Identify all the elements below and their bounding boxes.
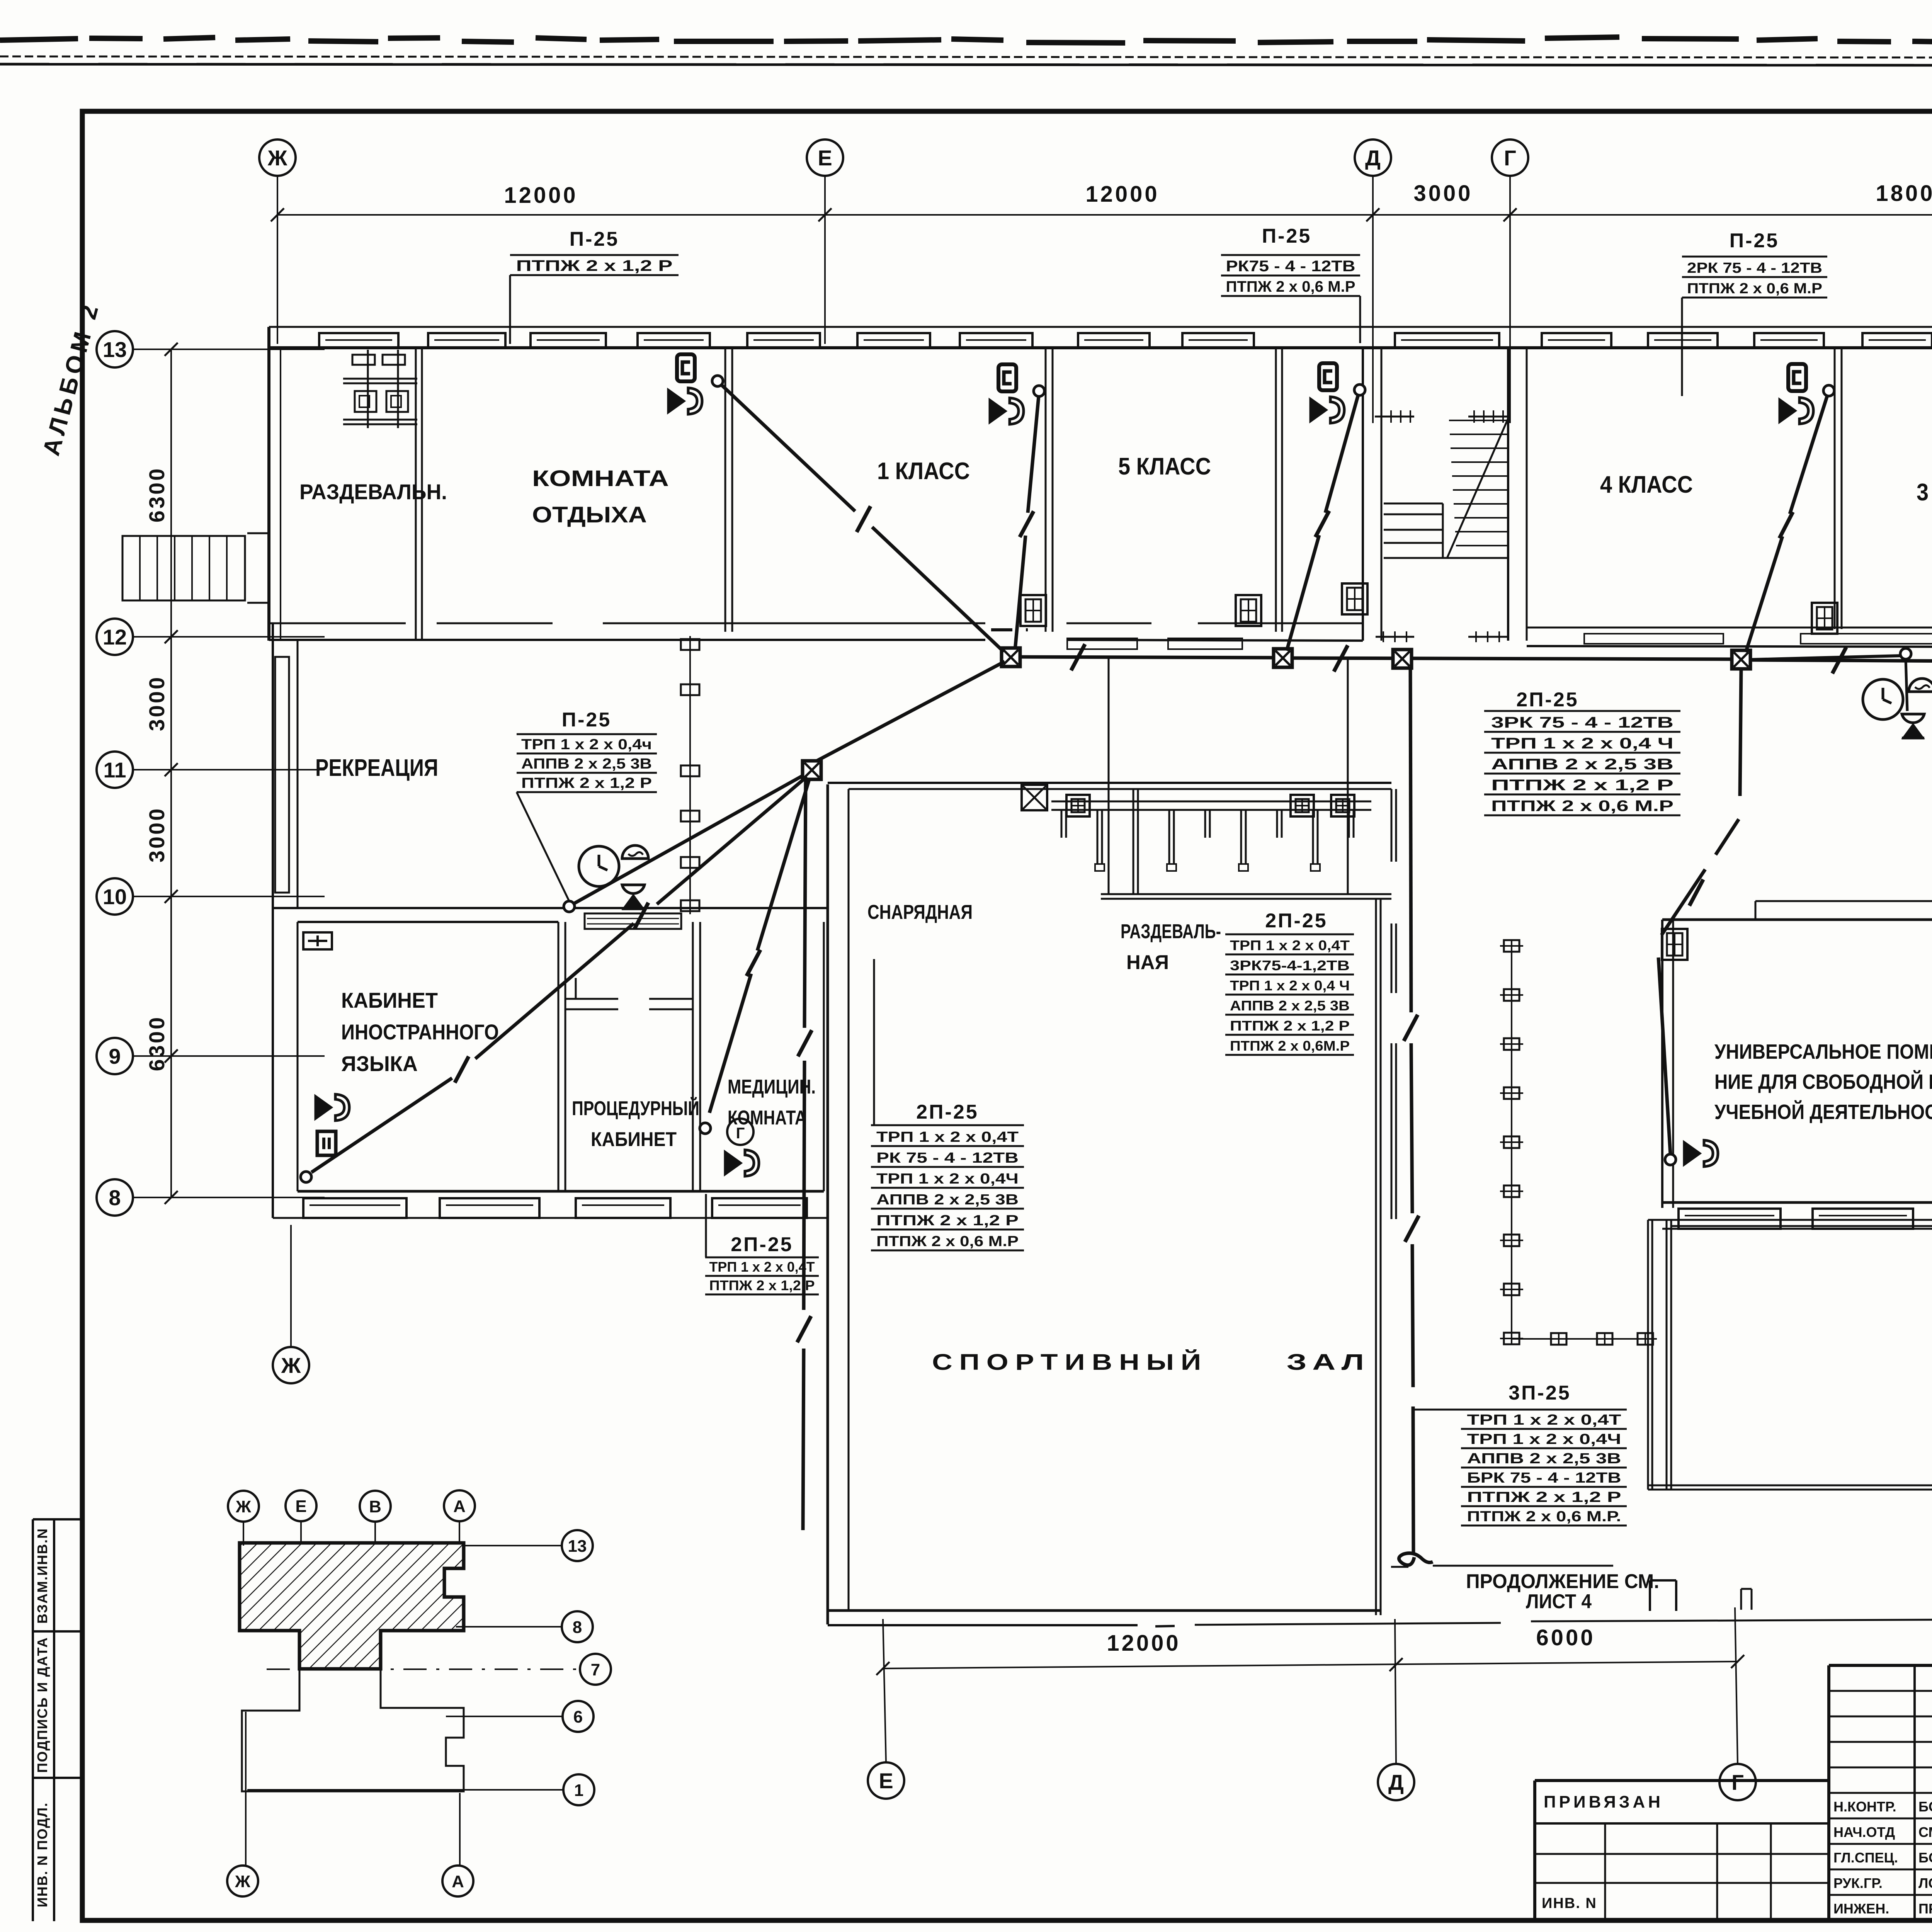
clock symbol <box>579 846 619 886</box>
axis bubble 11 <box>97 752 133 788</box>
svg-text:КАБИНЕТ: КАБИНЕТ <box>591 1128 677 1151</box>
key plan leaders top <box>243 1521 459 1546</box>
univ room west wall <box>1661 920 1663 1208</box>
svg-text:8: 8 <box>109 1185 121 1210</box>
svg-text:Д: Д <box>1365 146 1381 170</box>
table leader <box>517 792 569 901</box>
coat rack rail <box>1051 801 1371 871</box>
svg-text:РЕКРЕАЦИЯ: РЕКРЕАЦИЯ <box>315 755 438 781</box>
cabinet / procedure partition <box>558 922 560 1191</box>
sensor box C <box>1788 364 1806 391</box>
canteen west wall <box>1647 1220 1649 1490</box>
svg-text:Ж: Ж <box>235 1872 250 1891</box>
key plan leader lines <box>247 1546 580 1790</box>
connection point <box>1034 386 1044 396</box>
svg-text:В: В <box>369 1497 381 1516</box>
signature names <box>1833 1799 1932 1917</box>
corridor wall radiators left half <box>1067 638 1242 649</box>
svg-text:БОРОДКИН: БОРОДКИН <box>1918 1799 1932 1815</box>
right lower south windows <box>1679 1209 1932 1229</box>
clock symbol <box>1863 679 1903 719</box>
svg-text:ПТПЖ 2 х 0,6 М.Р.: ПТПЖ 2 х 0,6 М.Р. <box>1467 1509 1621 1525</box>
junction box <box>1274 649 1292 667</box>
medroom phone <box>727 1119 753 1145</box>
axis bubble 9 <box>97 1038 133 1074</box>
device box <box>1066 795 1090 816</box>
key plan bottom leaders <box>246 1712 460 1866</box>
svg-text:6: 6 <box>573 1708 583 1726</box>
sensor box C <box>1319 363 1337 390</box>
svg-text:ИНВ. N: ИНВ. N <box>1542 1895 1597 1912</box>
axis bubble Ж <box>227 1866 258 1896</box>
svg-text:А: А <box>452 1872 464 1891</box>
svg-text:Е: Е <box>818 146 832 170</box>
svg-text:13: 13 <box>103 337 127 362</box>
cable rec to jbox <box>574 775 804 903</box>
privyazan box <box>1535 1781 1829 1920</box>
svg-text:Д: Д <box>1388 1770 1404 1794</box>
sensor box C <box>998 364 1016 391</box>
svg-text:КОМНАТА: КОМНАТА <box>532 466 669 491</box>
partition hangers <box>681 636 699 914</box>
svg-text:ТРП 1 х 2 х 0,4Ч: ТРП 1 х 2 х 0,4Ч <box>876 1171 1019 1187</box>
hourglass detector <box>1902 714 1924 738</box>
axis bubble Г <box>1492 139 1528 176</box>
svg-text:РАЗДЕВАЛЬ-: РАЗДЕВАЛЬ- <box>1121 920 1221 943</box>
svg-text:ИНОСТРАННОГО: ИНОСТРАННОГО <box>341 1020 499 1044</box>
svg-text:КАБИНЕТ: КАБИНЕТ <box>341 988 438 1012</box>
svg-text:УЧЕБНОЙ ДЕЯТЕЛЬНОСТИ: УЧЕБНОЙ ДЕЯТЕЛЬНОСТИ <box>1714 1100 1932 1124</box>
svg-text:13: 13 <box>568 1537 587 1556</box>
bottom dimension line <box>883 1662 1738 1668</box>
svg-text:Г: Г <box>1504 146 1516 170</box>
column mark <box>1500 1038 1523 1050</box>
axis bubble 1 <box>563 1774 594 1805</box>
rest room / class1 partition <box>724 348 726 632</box>
svg-text:ПТПЖ 2 х 0,6 М.Р: ПТПЖ 2 х 0,6 М.Р <box>1687 281 1822 297</box>
svg-text:ИНЖЕН.: ИНЖЕН. <box>1833 1901 1889 1917</box>
svg-text:11: 11 <box>103 758 126 782</box>
svg-text:ПТПЖ 2 х 0,6М.Р: ПТПЖ 2 х 0,6М.Р <box>1230 1038 1350 1054</box>
connection point <box>700 1123 711 1134</box>
device box <box>1812 603 1837 634</box>
loudspeaker <box>315 1094 349 1121</box>
axis bubble 13 <box>97 331 133 367</box>
svg-text:4 КЛАСС: 4 КЛАСС <box>1600 471 1693 498</box>
device box <box>1236 595 1261 626</box>
svg-text:Ж: Ж <box>281 1353 301 1378</box>
axis bubble Е <box>807 139 843 176</box>
trunk cable line <box>1020 657 1932 664</box>
class5 right partition <box>1275 348 1277 632</box>
cable table П-25 <box>1221 225 1360 296</box>
svg-text:ПРОДОЛЖЕНИЕ СМ.: ПРОДОЛЖЕНИЕ СМ. <box>1466 1570 1659 1593</box>
svg-text:10: 10 <box>103 884 127 909</box>
axis bubble 10 <box>97 878 133 915</box>
north facade windows <box>319 333 1932 348</box>
left dimension line <box>170 349 172 1197</box>
stair block left wall <box>1362 348 1364 641</box>
cable table П-25 <box>510 228 679 275</box>
svg-text:ПТПЖ 2 х 1,2 Р: ПТПЖ 2 х 1,2 Р <box>516 257 673 274</box>
svg-text:ПОДПИСЬ И ДАТА: ПОДПИСЬ И ДАТА <box>34 1637 50 1773</box>
svg-text:ПРИВЯЗАН: ПРИВЯЗАН <box>1544 1793 1663 1811</box>
svg-text:СМИРНОВ: СМИРНОВ <box>1918 1824 1932 1840</box>
svg-text:ПТПЖ 2 х 1,2 Р: ПТПЖ 2 х 1,2 Р <box>1467 1489 1621 1505</box>
svg-text:2РК 75 - 4 - 12ТВ: 2РК 75 - 4 - 12ТВ <box>1687 260 1822 276</box>
svg-text:Е: Е <box>295 1497 306 1516</box>
canteen porch posts <box>1650 1580 1752 1611</box>
top rule line <box>0 64 1932 66</box>
svg-text:П-25: П-25 <box>1262 225 1312 247</box>
procedure / medroom partition <box>692 922 694 1191</box>
axis bubble А <box>444 1490 475 1521</box>
device box <box>1331 795 1354 816</box>
svg-text:7: 7 <box>591 1660 600 1679</box>
stair block right wall <box>1507 348 1509 641</box>
leader to wall <box>705 1194 707 1257</box>
svg-text:12000: 12000 <box>1085 182 1159 207</box>
canteen north wall <box>1648 1219 1932 1221</box>
axis bubble Е <box>868 1762 904 1799</box>
connection point <box>1900 648 1911 659</box>
key plan hatched block <box>240 1543 464 1669</box>
svg-text:ВЗАМ.ИНВ.N: ВЗАМ.ИНВ.N <box>34 1528 50 1624</box>
svg-text:ЗАЛ: ЗАЛ <box>1287 1350 1370 1375</box>
colonnade columns horizontal <box>1512 1333 1657 1345</box>
table leader <box>873 959 875 1125</box>
loudspeaker <box>1310 397 1344 423</box>
svg-text:НИЕ ДЛЯ СВОБОДНОЙ ВНЕ-: НИЕ ДЛЯ СВОБОДНОЙ ВНЕ- <box>1714 1070 1932 1094</box>
folding partition line <box>689 641 691 908</box>
svg-text:ТРП 1 х 2 х 0,4Т: ТРП 1 х 2 х 0,4Т <box>876 1129 1019 1145</box>
axis bubble В <box>360 1491 391 1522</box>
svg-text:ТРП 1 х 2 х 0,4Т: ТРП 1 х 2 х 0,4Т <box>1230 937 1350 953</box>
cable jbox to trunk <box>816 662 1005 761</box>
recreation south wall <box>273 907 828 909</box>
svg-text:БОРОДКИН: БОРОДКИН <box>1918 1850 1932 1866</box>
cabinet west wall <box>272 908 274 1218</box>
axis bubble Ж <box>273 1347 309 1383</box>
svg-text:П-25: П-25 <box>570 228 619 250</box>
right block north wall <box>1662 918 1932 921</box>
svg-text:ПРАВОТОРИНА: ПРАВОТОРИНА <box>1918 1901 1932 1917</box>
svg-text:УНИВЕРСАЛЬНОЕ ПОМЕЩЕ-: УНИВЕРСАЛЬНОЕ ПОМЕЩЕ- <box>1714 1040 1932 1063</box>
west wall of wardrobe room <box>267 327 270 641</box>
razdev south wall <box>1101 893 1391 895</box>
cable table 3П-25 <box>1461 1382 1627 1526</box>
vertical cable corridor <box>1109 658 1419 1554</box>
continuation hook <box>1399 1553 1433 1565</box>
cable table П-25 <box>1682 230 1827 298</box>
svg-text:АППВ 2 х 2,5 3В: АППВ 2 х 2,5 3В <box>1491 756 1673 773</box>
svg-text:ПТПЖ 2 х 1,2 Р: ПТПЖ 2 х 1,2 Р <box>521 775 652 791</box>
svg-text:ТРП 1 х 2 х 0,4Т: ТРП 1 х 2 х 0,4Т <box>1467 1412 1621 1428</box>
wardrobe racks <box>343 350 417 428</box>
svg-text:ПТПЖ 2 х 1,2 Р: ПТПЖ 2 х 1,2 Р <box>1230 1018 1350 1034</box>
cable table 2П-25 <box>1225 910 1354 1055</box>
connection point <box>1665 1154 1676 1165</box>
svg-text:ТРП 1 х 2 х 0,4Ч: ТРП 1 х 2 х 0,4Ч <box>1467 1431 1621 1447</box>
north wall upper band segments <box>1755 901 1932 920</box>
right lower south wall <box>1662 1201 1932 1204</box>
svg-text:СПОРТИВНЫЙ: СПОРТИВНЫЙ <box>932 1350 1208 1375</box>
loudspeaker <box>1779 398 1813 424</box>
svg-text:3РК75-4-1,2ТВ: 3РК75-4-1,2ТВ <box>1230 957 1350 973</box>
canteen south wall <box>1648 1485 1932 1486</box>
axis bubble А <box>442 1866 473 1896</box>
device box <box>1291 795 1314 816</box>
svg-text:3000: 3000 <box>1413 181 1473 206</box>
cable table 2П-25 <box>705 1233 819 1294</box>
axis leader lines left <box>133 349 325 1197</box>
column mark <box>1634 1333 1657 1345</box>
column mark <box>1500 1333 1523 1344</box>
svg-text:АППВ 2 х 2,5 3В: АППВ 2 х 2,5 3В <box>876 1192 1019 1208</box>
svg-text:25325-02: 25325-02 <box>1727 1929 1834 1932</box>
svg-text:ОТДЫХА: ОТДЫХА <box>532 502 647 527</box>
axis bubble 8 <box>562 1611 593 1642</box>
column mark <box>1500 1185 1523 1197</box>
bell symbol <box>1909 679 1932 692</box>
svg-text:18000: 18000 <box>1876 181 1932 206</box>
column mark <box>1593 1333 1616 1345</box>
loudspeaker <box>668 388 702 414</box>
cable dot down <box>1906 659 1907 711</box>
svg-text:ПТПЖ 2 х 0,6 М.Р: ПТПЖ 2 х 0,6 М.Р <box>1491 798 1673 815</box>
cable univ up <box>1658 670 1741 1155</box>
svg-text:Г: Г <box>1731 1770 1744 1794</box>
svg-text:3 КЛАСС: 3 КЛАСС <box>1917 479 1932 506</box>
key plan lower outline <box>242 1631 464 1791</box>
trunk break marks <box>1071 644 1085 670</box>
procedure room shelves <box>565 978 693 1009</box>
connection point <box>301 1172 311 1182</box>
svg-text:3000: 3000 <box>145 675 169 731</box>
svg-text:ПТПЖ 2 х 1,2 Р: ПТПЖ 2 х 1,2 Р <box>1491 777 1673 794</box>
cable jbox to cab.foreign lang <box>311 777 807 1172</box>
svg-text:РУК.ГР.: РУК.ГР. <box>1833 1875 1883 1891</box>
line dot to jbox <box>1751 656 1900 660</box>
connection point <box>564 901 575 912</box>
class1 / class5 partition <box>1045 348 1047 632</box>
svg-text:ПТПЖ 2 х 1,2 Р: ПТПЖ 2 х 1,2 Р <box>876 1213 1019 1229</box>
device box <box>1342 583 1367 614</box>
column mark <box>1500 940 1523 952</box>
svg-text:1 КЛАСС: 1 КЛАСС <box>877 458 970 485</box>
column mark <box>1500 1136 1523 1148</box>
svg-text:ЯЗЫКА: ЯЗЫКА <box>341 1051 418 1076</box>
axis bubble Ж <box>228 1491 259 1522</box>
svg-text:12000: 12000 <box>504 183 578 208</box>
svg-text:А: А <box>453 1497 466 1516</box>
svg-text:3000: 3000 <box>145 807 169 863</box>
device box <box>1020 595 1046 626</box>
continuation line <box>1433 1565 1613 1567</box>
svg-text:РК75 - 4 - 12ТВ: РК75 - 4 - 12ТВ <box>1226 258 1355 275</box>
entry porch steps <box>122 533 270 603</box>
column mark <box>1500 1284 1523 1295</box>
axis bubble 6 <box>563 1701 594 1732</box>
svg-text:3РК 75 - 4 - 12ТВ: 3РК 75 - 4 - 12ТВ <box>1491 714 1673 731</box>
svg-text:2П-25: 2П-25 <box>916 1101 978 1123</box>
lower block south windows <box>303 1198 807 1218</box>
X-panel symbol <box>1022 785 1047 810</box>
class4 / class3 partition <box>1834 348 1836 629</box>
svg-text:НАЯ: НАЯ <box>1126 951 1169 974</box>
recreation west window strip <box>272 623 274 908</box>
staircase flight left <box>1384 503 1508 558</box>
staircase flight right <box>1447 418 1508 558</box>
svg-text:3П-25: 3П-25 <box>1509 1382 1571 1404</box>
central block north wall <box>828 782 1391 784</box>
bell symbol <box>622 845 648 859</box>
svg-text:НАЧ.ОТД: НАЧ.ОТД <box>1833 1824 1895 1840</box>
connection point <box>1823 385 1834 396</box>
svg-text:Н.КОНТР.: Н.КОНТР. <box>1833 1799 1896 1815</box>
loudspeaker <box>990 398 1024 424</box>
svg-text:БРК 75 - 4 - 12ТВ: БРК 75 - 4 - 12ТВ <box>1467 1470 1621 1486</box>
svg-text:ТРП 1 х 2 х 0,4ч: ТРП 1 х 2 х 0,4ч <box>521 736 652 753</box>
corridor wall north side <box>269 623 1363 641</box>
svg-text:АППВ 2 х 2,5 3В: АППВ 2 х 2,5 3В <box>521 756 652 772</box>
vertical cable along sport wall <box>797 781 812 1530</box>
connection point <box>712 376 723 386</box>
corridor wall right half <box>1527 628 1932 648</box>
svg-text:ТРП 1 х 2 х 0,4 Ч: ТРП 1 х 2 х 0,4 Ч <box>1491 735 1673 752</box>
svg-text:6300: 6300 <box>145 1015 169 1071</box>
axis bubble Д <box>1355 139 1391 176</box>
sport hall east wall <box>1375 899 1377 1615</box>
svg-text:РАЗДЕВАЛЬН.: РАЗДЕВАЛЬН. <box>299 480 447 504</box>
svg-text:ПТПЖ 2 х 0,6 М.Р: ПТПЖ 2 х 0,6 М.Р <box>1226 278 1355 295</box>
svg-text:6000: 6000 <box>1536 1625 1595 1650</box>
hourglass detector <box>622 885 645 909</box>
device box <box>1662 929 1687 960</box>
loudspeaker <box>1684 1140 1718 1167</box>
svg-text:12: 12 <box>103 625 127 649</box>
connection point <box>1354 384 1365 395</box>
axis bubble Е <box>286 1490 316 1521</box>
svg-text:6300: 6300 <box>145 467 169 523</box>
wardrobe/rest room partition <box>415 348 417 641</box>
svg-text:СНАРЯДНАЯ: СНАРЯДНАЯ <box>867 901 973 923</box>
svg-text:5 КЛАСС: 5 КЛАСС <box>1118 453 1211 480</box>
svg-text:АППВ 2 х 2,5 3В: АППВ 2 х 2,5 3В <box>1467 1451 1621 1467</box>
medroom east wall <box>823 922 825 1191</box>
svg-text:Ж: Ж <box>267 146 287 170</box>
svg-text:8: 8 <box>573 1618 582 1637</box>
junction box <box>1393 650 1412 668</box>
axis bubble 7 <box>580 1654 611 1685</box>
axis bubble Д <box>1378 1764 1414 1800</box>
cable table П-25 <box>517 709 657 792</box>
sensor box C <box>677 354 695 381</box>
svg-text:ПТПЖ 2 х 1,2 Р: ПТПЖ 2 х 1,2 Р <box>709 1277 815 1293</box>
sport block west wall <box>827 784 829 1624</box>
svg-text:П-25: П-25 <box>562 709 612 731</box>
column mark <box>1500 989 1523 1001</box>
colonnade columns vertical <box>1500 940 1523 1344</box>
junction box <box>803 761 821 779</box>
sport hall south wall <box>828 1609 1381 1612</box>
site south line <box>828 1624 1138 1626</box>
room drop cable <box>1790 396 1827 514</box>
svg-text:ГЛ.СПЕЦ.: ГЛ.СПЕЦ. <box>1833 1850 1898 1866</box>
axis bubble 8 <box>97 1179 133 1216</box>
stair handrails <box>1375 410 1508 642</box>
svg-text:Г: Г <box>736 1125 745 1142</box>
column mark <box>1500 1087 1523 1099</box>
svg-text:ИНВ. N ПОДЛ.: ИНВ. N ПОДЛ. <box>34 1802 50 1907</box>
door threshold detail <box>585 913 681 929</box>
scan edge dashes top <box>0 37 1932 43</box>
svg-text:ПРОЦЕДУРНЫЙ: ПРОЦЕДУРНЫЙ <box>572 1097 699 1120</box>
axis bubble Ж <box>259 139 296 176</box>
loudspeaker <box>725 1150 759 1176</box>
top dimension line <box>277 214 1932 216</box>
svg-text:МЕДИЦИН.: МЕДИЦИН. <box>728 1076 816 1098</box>
svg-text:АППВ 2 х 2,5 3В: АППВ 2 х 2,5 3В <box>1230 998 1350 1014</box>
svg-text:9: 9 <box>109 1044 121 1068</box>
cable jbox to medroom <box>709 780 809 1113</box>
svg-text:ТРП 1 х 2 х 0,4 Ч: ТРП 1 х 2 х 0,4 Ч <box>1230 978 1350 993</box>
svg-text:2П-25: 2П-25 <box>731 1233 793 1256</box>
fire call point box <box>303 932 332 949</box>
north exterior wall inner line <box>269 346 1932 349</box>
svg-text:2П-25: 2П-25 <box>1516 689 1578 711</box>
svg-text:ТРП 1 х 2 х 0,4Т: ТРП 1 х 2 х 0,4Т <box>709 1259 815 1275</box>
snar/razdev divider <box>1133 789 1134 894</box>
column mark <box>1547 1333 1570 1345</box>
junction box <box>1732 650 1750 669</box>
svg-text:ЛИСТ 4: ЛИСТ 4 <box>1526 1590 1592 1613</box>
scan noise line top <box>0 56 1932 58</box>
axis bubble 13 <box>562 1530 593 1561</box>
svg-text:12000: 12000 <box>1107 1631 1180 1656</box>
axis bubble 12 <box>97 619 133 655</box>
axis leader lines top <box>277 176 1932 433</box>
cable table 2П-25 <box>871 1101 1024 1250</box>
svg-text:2П-25: 2П-25 <box>1265 910 1327 932</box>
sidebar boxes left <box>33 1519 82 1921</box>
room drop cable <box>1028 396 1039 513</box>
north exterior wall outer line <box>269 326 1932 328</box>
svg-text:Е: Е <box>879 1769 893 1793</box>
svg-text:П-25: П-25 <box>1730 230 1779 252</box>
svg-text:Ж: Ж <box>235 1497 251 1516</box>
junction box <box>1002 648 1020 667</box>
column mark <box>1500 1235 1523 1246</box>
axis bubble Г <box>1719 1764 1756 1800</box>
lower block south wall outer <box>273 1217 828 1219</box>
leader <box>1414 1409 1461 1411</box>
corridor wall dashes <box>991 628 1028 631</box>
svg-text:ЛОГИНОВА: ЛОГИНОВА <box>1918 1875 1932 1891</box>
svg-text:1: 1 <box>574 1781 583 1800</box>
svg-text:ПТПЖ 2 х 0,6 М.Р: ПТПЖ 2 х 0,6 М.Р <box>876 1233 1019 1250</box>
cabinet sensor box <box>317 1131 336 1155</box>
signature table <box>1829 1665 1932 1920</box>
room drop cable <box>1325 395 1358 513</box>
room drop cable <box>721 385 855 511</box>
cable table 2П-25 <box>1484 689 1680 815</box>
corridor east wall <box>1391 789 1396 1219</box>
lower block south wall inner <box>298 1190 824 1193</box>
svg-text:РК 75 - 4 - 12ТВ: РК 75 - 4 - 12ТВ <box>876 1150 1019 1166</box>
